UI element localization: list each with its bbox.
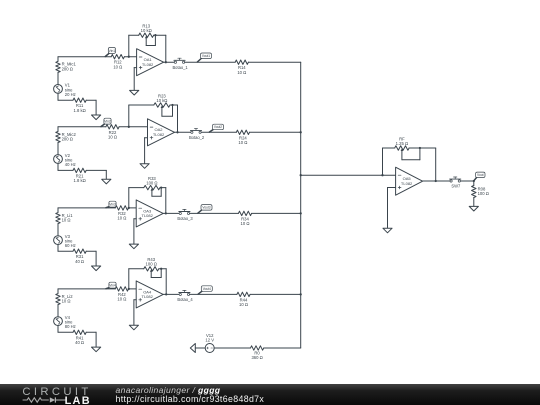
svg-text:TL082: TL082 [142,62,154,67]
svg-text:10 Ω: 10 Ω [241,221,250,226]
svg-text:Botao_3: Botao_3 [177,216,193,221]
svg-text:10 Ω: 10 Ω [62,299,71,304]
svg-text:12 V: 12 V [205,338,214,343]
svg-text:100 Ω: 100 Ω [146,262,157,267]
svg-text:10 Ω: 10 Ω [113,64,122,69]
svg-text:SW7: SW7 [451,184,461,189]
svg-text:Vout4: Vout4 [203,287,211,291]
svg-text:10 Ω: 10 Ω [117,297,126,302]
svg-text:1.25 Ω: 1.25 Ω [396,141,408,146]
svg-text:Vin4: Vin4 [109,283,116,287]
svg-text:10 kΩ: 10 kΩ [141,28,152,33]
svg-text:200 Ω: 200 Ω [62,136,73,141]
svg-text:Vin2: Vin2 [104,120,111,124]
svg-text:TL082: TL082 [142,294,154,299]
svg-text:Vout1: Vout1 [202,54,210,58]
svg-text:20 Hz: 20 Hz [65,92,76,97]
svg-text:1.8 kΩ: 1.8 kΩ [73,178,85,183]
svg-text:TL082: TL082 [142,213,154,218]
svg-text:40 Ω: 40 Ω [75,259,84,264]
svg-text:TL082: TL082 [153,132,165,137]
svg-text:Botao_4: Botao_4 [177,297,193,302]
svg-text:Botao_1: Botao_1 [172,65,188,70]
svg-text:10 Ω: 10 Ω [238,140,247,145]
svg-text:200 Ω: 200 Ω [62,66,73,71]
svg-text:10 Ω: 10 Ω [117,216,126,221]
svg-text:100 Ω: 100 Ω [146,180,157,185]
svg-text:10 Ω: 10 Ω [62,218,71,223]
svg-text:Vin1: Vin1 [109,49,116,53]
svg-text:100 Ω: 100 Ω [478,191,489,196]
svg-text:Botao_2: Botao_2 [189,135,205,140]
svg-text:Vout3: Vout3 [202,206,210,210]
svg-text:Vout: Vout [477,173,484,177]
svg-text:40 Hz: 40 Hz [65,162,76,167]
svg-text:80 Hz: 80 Hz [65,324,76,329]
svg-text:10 Ω: 10 Ω [108,134,117,139]
svg-text:40 Ω: 40 Ω [75,340,84,345]
svg-text:10 Ω: 10 Ω [239,302,248,307]
svg-text:60 Hz: 60 Hz [65,243,76,248]
svg-text:10 kΩ: 10 kΩ [156,98,167,103]
svg-text:10 Ω: 10 Ω [237,70,246,75]
svg-text:Vin3: Vin3 [109,202,116,206]
svg-text:TL082: TL082 [401,181,413,186]
svg-text:Vout2: Vout2 [214,125,222,129]
svg-text:1.8 kΩ: 1.8 kΩ [73,108,85,113]
svg-text:360 Ω: 360 Ω [251,355,262,360]
svg-text:LAB: LAB [65,395,91,405]
